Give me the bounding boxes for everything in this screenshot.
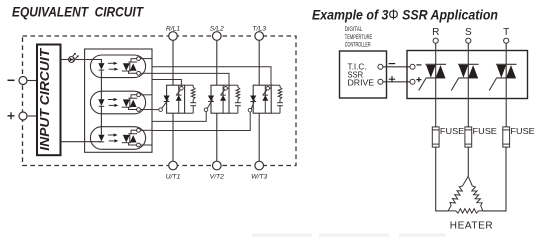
SSR input terminal minus: [410, 64, 415, 69]
SSR module box: [407, 51, 528, 99]
wire: phase line 3 lower: [258, 113, 260, 161]
SCR module 2 right gate terminal: [224, 87, 228, 91]
SCR module 1 left gate lead: [162, 100, 169, 109]
snubber capacitor C2: [229, 99, 241, 113]
label: SSR plus: [416, 77, 421, 82]
svg-text:FUSE: FUSE: [440, 126, 465, 136]
SCR module 3 right gate terminal: [266, 87, 270, 91]
wire: PC1 output to SCR block 2 upper gate: [152, 73, 229, 88]
terminal: DC input plus: [19, 112, 27, 120]
snubber resistor R2: [229, 85, 240, 99]
wire: LED chain segment PC1-PC2: [100, 70, 102, 99]
svg-text:CONTROLLER: CONTROLLER: [345, 42, 371, 49]
terminal U/T1: [169, 161, 178, 170]
SCR module 2 right gate lead: [221, 90, 225, 95]
svg-text:Example of 3Φ SSR Application: Example of 3Φ SSR Application: [312, 7, 498, 24]
heater element right winding: [468, 176, 483, 211]
SCR module 3 forward thyristor (right, cathode up): [262, 85, 268, 113]
svg-text:EQUIVALENT CIRCUIT: EQUIVALENT CIRCUIT: [12, 4, 145, 19]
wire: LED chain return to input circuit: [61, 141, 102, 143]
snubber capacitor C3: [271, 99, 283, 113]
snubber resistor R3: [271, 85, 282, 99]
photocoupler PC3 output pins: [129, 128, 153, 147]
wire: phase line 1 upper: [172, 40, 174, 85]
SCR module 2 reverse thyristor (left, cathode down): [208, 96, 214, 102]
photocoupler PC1 body: [90, 55, 145, 78]
SCR module 1 forward thyristor (right, cathode up): [176, 85, 182, 113]
photocoupler PC3 LED: [98, 135, 104, 142]
photocoupler PC3 photo-triac: [122, 134, 137, 143]
svg-text:INPUT CIRCUIT: INPUT CIRCUIT: [37, 48, 52, 151]
triac Q1: [419, 51, 446, 99]
SCR module 1 box: [167, 85, 185, 113]
terminal T/L3: [255, 32, 264, 41]
photocoupler PC1 photo-triac: [122, 62, 137, 71]
photocoupler PC1 light arrows: [108, 62, 119, 71]
wire: phase line 3 upper: [258, 40, 260, 85]
svg-text:TEMPERTURE: TEMPERTURE: [345, 34, 372, 41]
dashed enclosure border (equivalent circuit boundary): [23, 36, 297, 166]
photocoupler PC3 body: [90, 127, 145, 150]
SCR module 2 left gate lead: [207, 100, 213, 109]
controller output terminal plus: [378, 79, 383, 84]
wire: phase line 2 lower: [216, 113, 218, 161]
svg-text:R: R: [432, 27, 439, 38]
indicator LED D1: [69, 53, 79, 63]
input circuit block: [37, 45, 61, 156]
terminal: DC input minus: [19, 77, 27, 85]
SCR module 3 left gate terminal: [248, 108, 252, 112]
label: plus polarity: [8, 112, 15, 119]
wire: PC3 output to SCR block 3 lower gate: [152, 112, 250, 131]
svg-text:T: T: [503, 27, 509, 38]
wire: T terminal into SSR: [505, 43, 507, 50]
photocoupler PC2 photo-triac: [122, 98, 137, 107]
SCR module 3 reverse thyristor (left, cathode down): [250, 96, 256, 102]
wire: PC1 output to SCR block 3 upper gate: [152, 67, 271, 89]
SCR module 3 right gate lead: [263, 90, 267, 95]
wire: plus terminal to input circuit: [27, 115, 37, 117]
SCR module 1 reverse thyristor (left, cathode down): [164, 96, 170, 102]
wire: controller minus to SSR minus: [383, 66, 410, 68]
wire: PC2 output to SCR block 1 upper gate: [152, 80, 181, 87]
terminal phase T: [504, 38, 509, 43]
photocoupler PC2 LED: [98, 99, 104, 106]
triac Q2: [451, 51, 478, 99]
wire: SSR output 3 to fuse F3: [505, 99, 507, 127]
wire: minus terminal to input circuit: [27, 80, 37, 82]
svg-text:HEATER: HEATER: [450, 221, 493, 232]
wire: fuse F1 to heater: [436, 147, 448, 211]
SCR module 1 right gate terminal: [180, 87, 184, 91]
label: controller plus: [389, 76, 395, 82]
wire: LED chain segment PC2-PC3: [100, 106, 102, 135]
svg-text:U/T1: U/T1: [166, 174, 181, 181]
terminal phase R: [433, 38, 438, 43]
terminal W/T3: [255, 161, 264, 170]
label: SSR minus: [416, 64, 421, 66]
heater element bottom winding: [448, 209, 483, 213]
wire: fuse F3 to heater: [483, 147, 506, 211]
controller output terminal minus: [378, 64, 383, 69]
wire: PC3 output to SCR block 2 lower gate: [152, 112, 206, 122]
wire: indicator LED to photocoupler LED chain: [75, 60, 102, 64]
SCR module 3 left gate lead: [251, 100, 255, 109]
photocoupler PC2 output pins: [129, 93, 153, 112]
wire: phase line 2 upper: [216, 40, 218, 85]
wire: phase line 1 lower: [172, 113, 174, 161]
wire: S terminal into SSR: [467, 43, 469, 50]
terminal phase S: [466, 38, 471, 43]
photocoupler PC1 LED: [98, 63, 104, 70]
svg-text:DRIVE: DRIVE: [348, 79, 375, 88]
label: T.I.C. SSR DRIVE: [348, 63, 375, 88]
faint footer fragment: [252, 234, 446, 237]
wire: PC2 output to SCR block 1 lower gate: [152, 109, 159, 111]
label: controller minus: [389, 63, 396, 65]
photocoupler PC3 light arrows: [108, 133, 119, 142]
wire: SSR output 1 to fuse F1: [435, 99, 437, 127]
snubber capacitor C1: [185, 99, 197, 113]
fuse F2: [465, 127, 472, 147]
svg-text:FUSE: FUSE: [510, 126, 535, 136]
svg-text:FUSE: FUSE: [473, 126, 498, 136]
temperature controller U10 box: [340, 51, 387, 98]
terminal S/L2: [213, 32, 222, 41]
SSR input terminal plus: [410, 79, 415, 84]
svg-text:W/T3: W/T3: [251, 174, 267, 181]
wire: R terminal into SSR: [435, 43, 437, 50]
SCR module 1 right gate lead: [176, 90, 180, 95]
photocoupler PC1 output pins: [129, 57, 153, 76]
SCR module 1 left gate terminal: [159, 108, 163, 112]
photocoupler PC2 light arrows: [108, 98, 119, 107]
svg-text:DIGITAL: DIGITAL: [345, 26, 363, 33]
label: DIGITAL TEMPERTURE CONTROLLER: [345, 26, 372, 48]
fuse F3: [503, 127, 510, 147]
snubber resistor R1: [185, 85, 195, 99]
wire: controller plus to SSR plus: [383, 81, 410, 83]
svg-text:V/T2: V/T2: [210, 174, 225, 181]
fuse F1: [432, 127, 439, 147]
photocoupler assembly box: [85, 49, 152, 152]
heater element left winding: [448, 176, 468, 211]
wire: input circuit to indicator LED: [61, 59, 69, 61]
terminal V/T2: [213, 161, 222, 170]
svg-text:S: S: [465, 27, 472, 38]
photocoupler PC2 body: [90, 91, 145, 114]
wire: SSR output 2 to fuse F2: [467, 99, 469, 127]
triac Q3: [489, 51, 516, 99]
SCR module 2 box: [211, 85, 229, 113]
wire: fuse F2 to heater apex: [467, 147, 469, 176]
SCR module 2 forward thyristor (right, cathode up): [220, 85, 226, 113]
SCR module 2 left gate terminal: [204, 108, 208, 112]
terminal R/L1: [169, 32, 178, 41]
label: minus polarity: [8, 79, 15, 81]
SCR module 3 box: [253, 85, 271, 113]
